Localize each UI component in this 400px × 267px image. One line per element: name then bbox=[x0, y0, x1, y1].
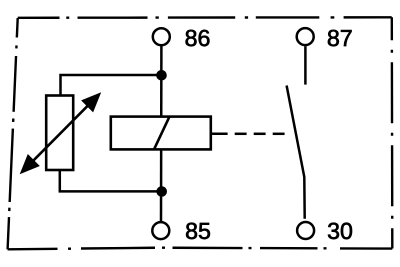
resistor variability arrow (double-headed, through body) bbox=[20, 92, 102, 174]
pin label 85 bbox=[186, 223, 210, 239]
terminal 30 bbox=[297, 222, 314, 239]
pin label 87 bbox=[328, 30, 352, 46]
wire: resistor top lead bbox=[61, 75, 162, 96]
wire: fixed contact stub under terminal 87 bbox=[304, 46, 307, 84]
resistor (parallel resistor, variable) body bbox=[46, 96, 73, 171]
mechanical linkage dash 1 bbox=[211, 133, 228, 136]
mechanical linkage dash 2 bbox=[235, 133, 247, 136]
terminal 86 bbox=[153, 28, 170, 45]
relay coil K1 body bbox=[111, 117, 211, 150]
junction node at 85 branch bbox=[156, 186, 167, 197]
mechanical linkage dash 4 bbox=[273, 133, 285, 136]
terminal 85 bbox=[152, 222, 169, 239]
enclosure border top (dash-dot) bbox=[18, 16, 392, 19]
enclosure border bottom (dash-dot) bbox=[8, 248, 393, 250]
relay coil diagonal stroke bbox=[154, 117, 170, 150]
enclosure border left (dash-dot) bbox=[8, 18, 18, 249]
wire: main vertical from terminal 86 to terminal 85 bbox=[160, 46, 163, 221]
mechanical linkage dash 3 bbox=[254, 133, 266, 136]
terminal 87 bbox=[297, 28, 314, 45]
pin label 86 bbox=[186, 30, 210, 46]
wire: resistor bottom lead bbox=[60, 170, 162, 191]
switch blade (movable contact) bbox=[287, 86, 305, 219]
enclosure border right (dash-dot) bbox=[391, 17, 394, 248]
junction node at 86 branch bbox=[156, 70, 167, 81]
pin label 30 bbox=[328, 223, 352, 239]
